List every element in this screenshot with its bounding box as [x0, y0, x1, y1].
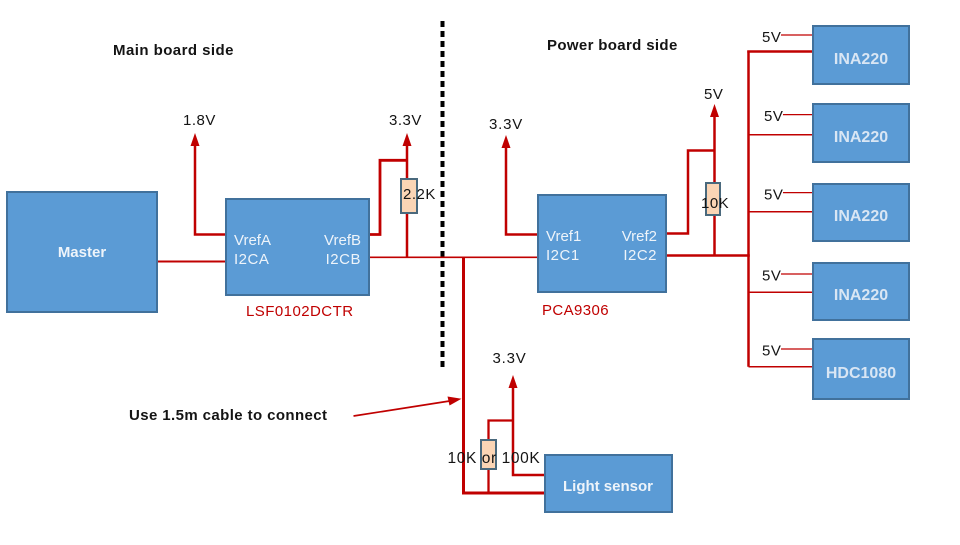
svg-text:10K: 10K [701, 195, 729, 212]
wire: 5V lead INA220 #4 [781, 273, 813, 275]
svg-text:3.3V: 3.3V [389, 112, 422, 129]
svg-text:INA220: INA220 [834, 287, 888, 304]
svg-text:5V: 5V [764, 187, 783, 204]
svg-text:INA220: INA220 [834, 51, 888, 68]
wire: 5V lead INA220 #2 [783, 114, 813, 116]
wire: 3.3V pull-up vertical (main board) [406, 140, 409, 257]
wire: bus stub to INA220 #3 [749, 211, 814, 213]
wire: I2C2 to right bus [666, 254, 750, 257]
wire: bus stub to INA220 #1 [747, 50, 813, 53]
wire: Master to I2CA [157, 261, 226, 263]
svg-text:INA220: INA220 [834, 208, 888, 225]
wire: bus stub to INA220 #4 [749, 291, 814, 293]
svg-text:INA220: INA220 [834, 129, 888, 146]
wire: I2C1 drop to light sensor [464, 257, 546, 493]
svg-text:5V: 5V [762, 29, 781, 46]
wire: 5V lead INA220 #3 [783, 192, 813, 194]
svg-text:2.2K: 2.2K [403, 186, 436, 203]
svg-text:1.8V: 1.8V [183, 112, 216, 129]
block INA220 #2 [813, 104, 909, 162]
svg-text:Vref2: Vref2 [622, 228, 657, 245]
svg-text:5V: 5V [762, 268, 781, 285]
arrowhead 5V power [710, 104, 719, 117]
wire: 1.8V supply to VrefA [195, 141, 226, 235]
svg-text:HDC1080: HDC1080 [826, 365, 896, 382]
resistor R2 10K [706, 183, 720, 215]
wire: 5V pull-up vertical (power board) [713, 111, 716, 256]
svg-text:Light sensor: Light sensor [563, 478, 653, 495]
arrowhead 3.3V power [502, 135, 511, 148]
block INA220 #4 [813, 263, 909, 320]
wire: 5V lead HDC1080 [781, 348, 813, 350]
block INA220 #1 [813, 26, 909, 84]
svg-text:I2CB: I2CB [326, 251, 361, 268]
wire: bus stub to HDC1080 [749, 366, 814, 368]
svg-text:I2CA: I2CA [234, 251, 269, 268]
svg-text:VrefA: VrefA [234, 232, 271, 249]
svg-text:3.3V: 3.3V [493, 350, 527, 367]
svg-text:Master: Master [58, 244, 107, 261]
wire: right vertical bus [747, 51, 750, 367]
svg-text:Vref1: Vref1 [546, 228, 581, 245]
block HDC1080 [813, 339, 909, 399]
wire: pull-up resistor bottom lead to data line [487, 468, 489, 494]
block INA220 #3 [813, 184, 909, 241]
svg-text:3.3V: 3.3V [489, 116, 523, 133]
wire: 3.3V supply to light sensor VCC [513, 382, 545, 475]
svg-text:5V: 5V [762, 343, 781, 360]
annotation arrow: cable callout [354, 400, 457, 416]
svg-text:I2C1: I2C1 [546, 247, 580, 264]
arrowhead cable callout [448, 397, 462, 406]
arrowhead 3.3V light sensor [509, 375, 518, 388]
block U2 PCA9306 [538, 195, 666, 292]
wire: bus stub to INA220 #2 [749, 134, 814, 136]
svg-text:PCA9306: PCA9306 [542, 302, 609, 319]
block Master [7, 192, 157, 312]
svg-text:10K or 100K: 10K or 100K [448, 450, 541, 467]
resistor R1 2.2K [401, 179, 417, 213]
wire: Vref2 to 5V net [666, 151, 715, 234]
svg-text:5V: 5V [764, 108, 783, 125]
wire: I2CB to I2C1 bus across divider [369, 256, 538, 258]
wire: VrefB to 3.3V net [369, 160, 407, 234]
svg-text:5V: 5V [704, 86, 723, 103]
svg-text:Use 1.5m cable to connect: Use 1.5m cable to connect [129, 407, 327, 424]
block Light sensor [545, 455, 672, 512]
resistor R3 10K or 100K [481, 440, 496, 469]
wire: 5V lead INA220 #1 [781, 34, 813, 36]
arrowhead 3.3V main [403, 133, 412, 146]
svg-text:Main board side: Main board side [113, 42, 234, 59]
svg-text:LSF0102DCTR: LSF0102DCTR [246, 303, 354, 320]
wire: pull-up resistor top lead to 3.3V [489, 421, 514, 442]
wire: 3.3V supply to Vref1 (power board) [506, 142, 538, 235]
arrowhead 1.8V [191, 133, 200, 146]
board divider dashed line [441, 21, 445, 369]
block U1 LSF0102DCTR [226, 199, 369, 295]
svg-text:Power board side: Power board side [547, 37, 678, 54]
svg-text:VrefB: VrefB [324, 232, 361, 249]
svg-text:I2C2: I2C2 [623, 247, 657, 264]
